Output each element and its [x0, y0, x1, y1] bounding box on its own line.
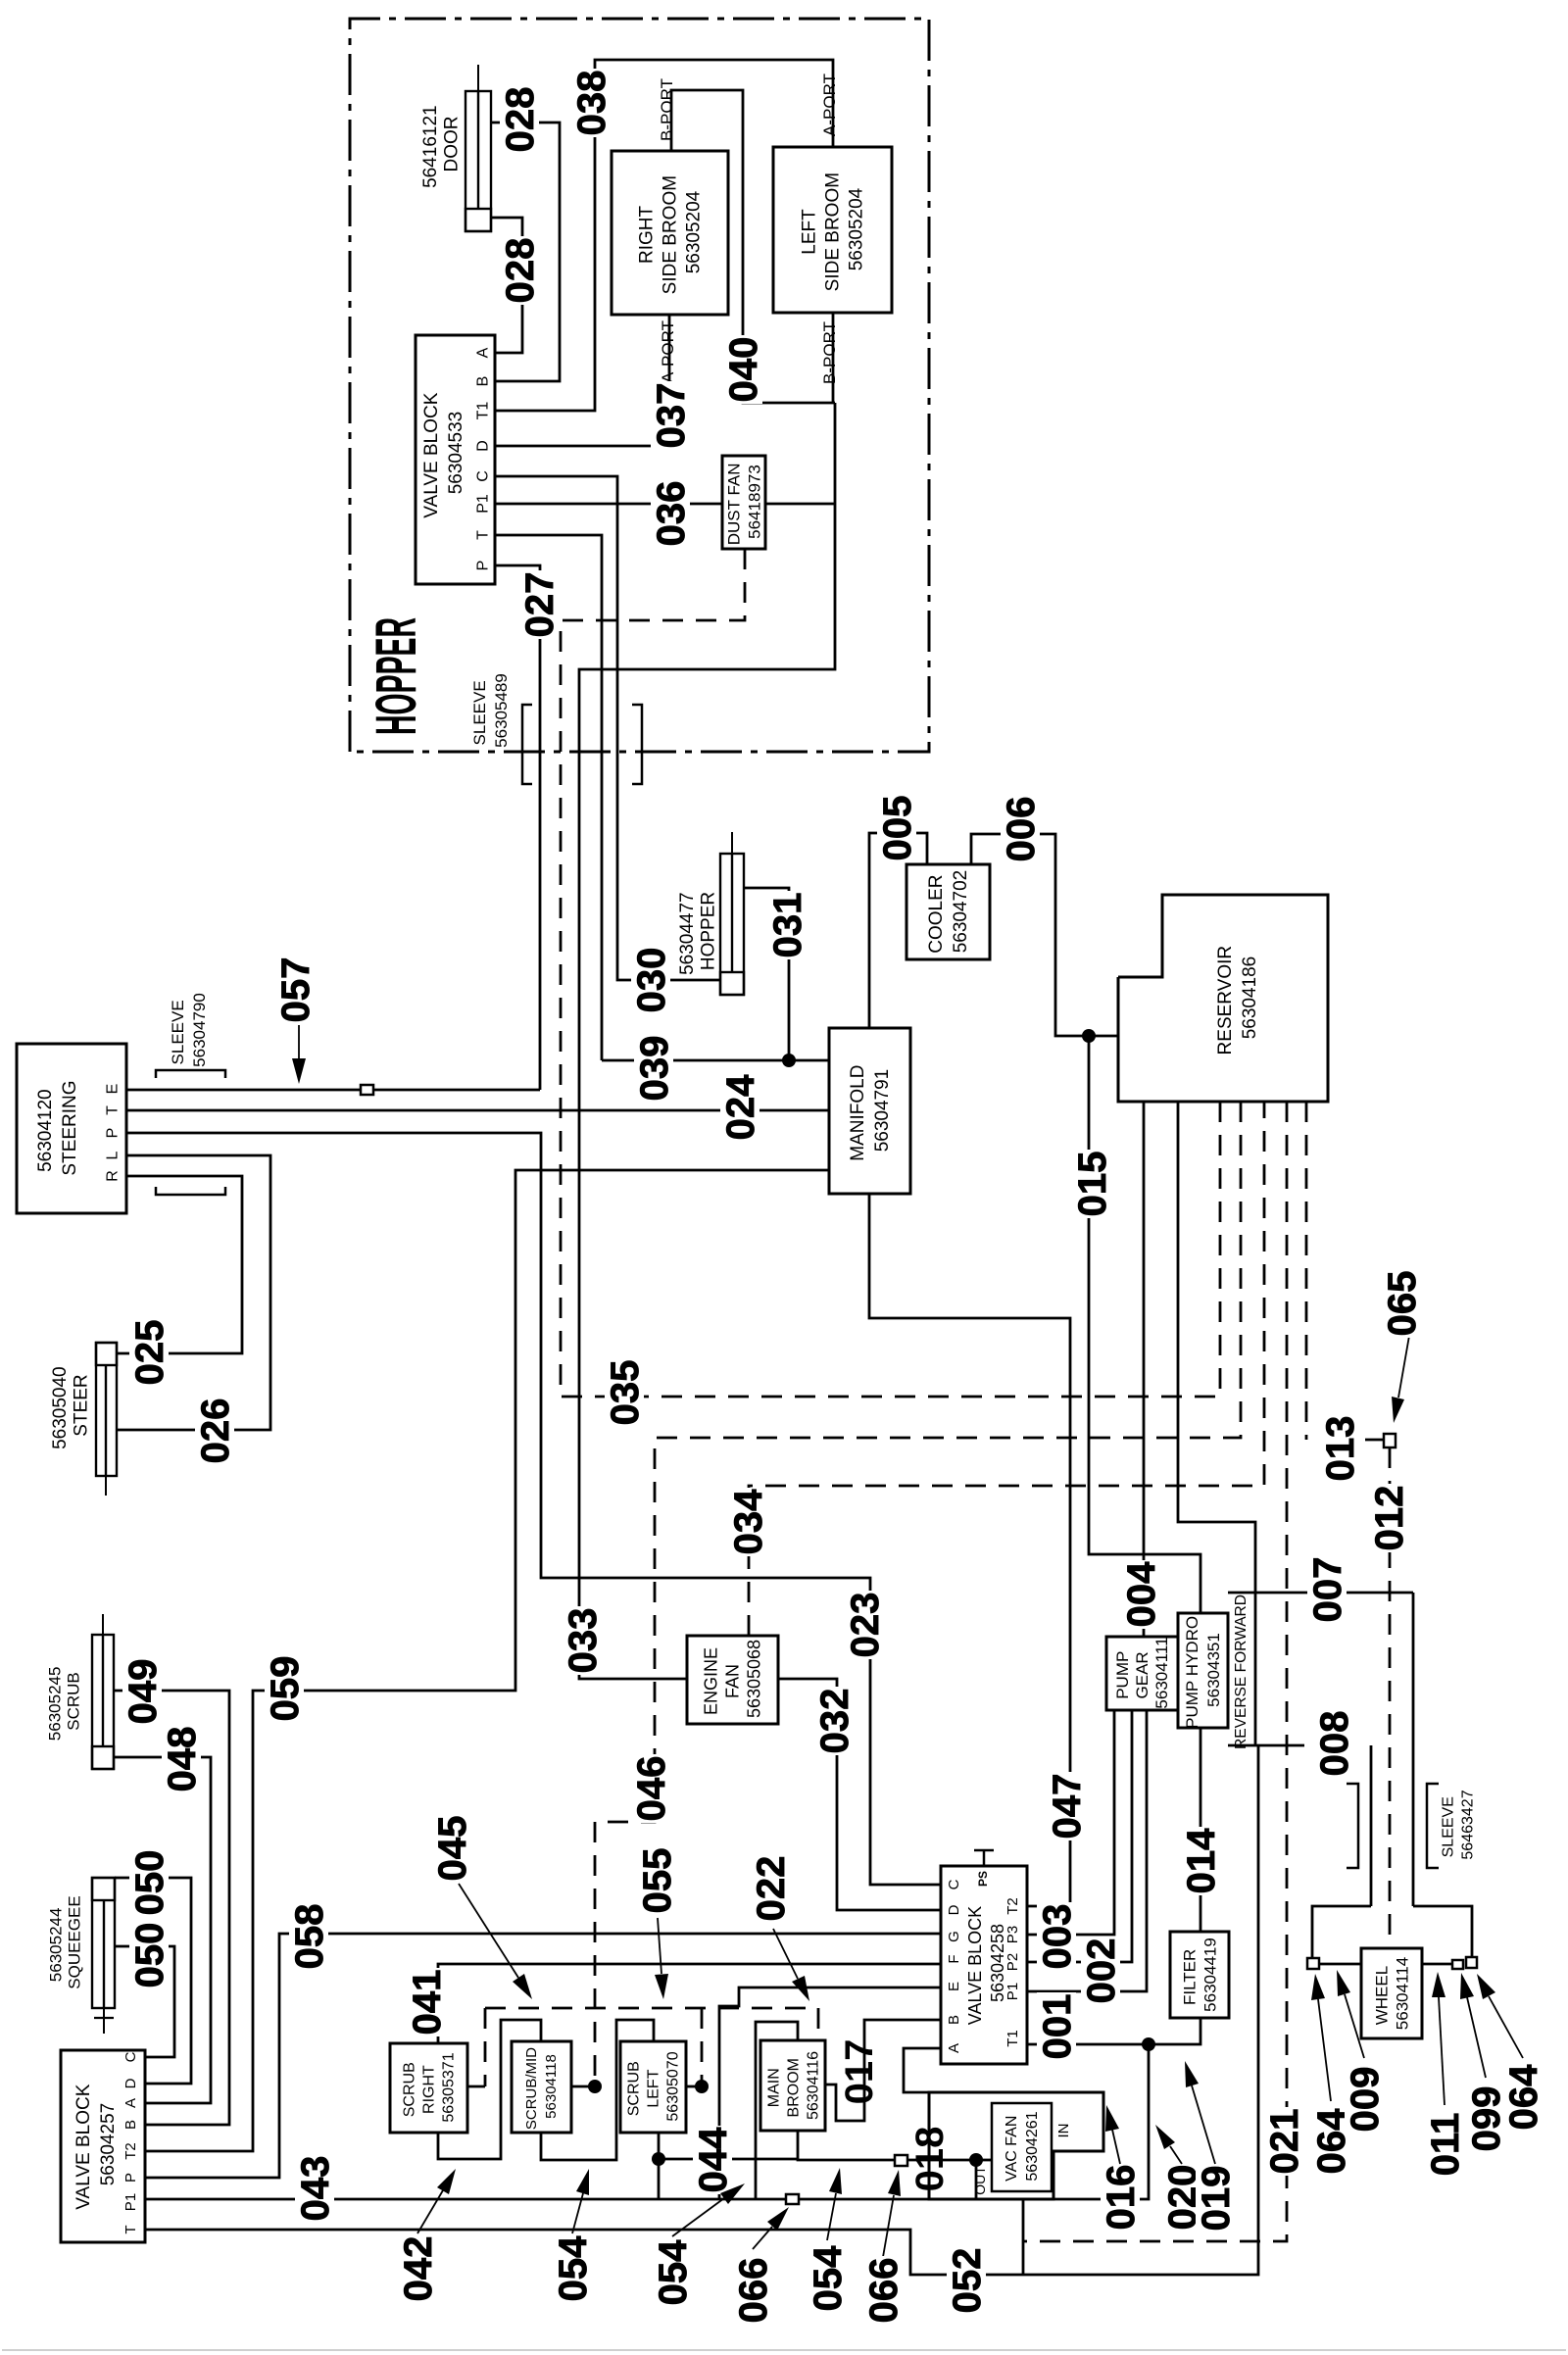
- label 047: [1047, 1772, 1086, 1840]
- wire C port down to hopper cylinder (hose 030): [495, 476, 720, 980]
- hydro pump reverse port line (hose 008 start): [1228, 1744, 1304, 1747]
- svg-text:C: C: [946, 1879, 962, 1889]
- connector 013: [1384, 1434, 1396, 1447]
- wire broom return down to engine fan (hose 033): [579, 403, 835, 1679]
- svg-text:B: B: [475, 376, 492, 387]
- junction main broom return: [969, 2153, 983, 2167]
- svg-text:56304477 HOPPER: 56304477 HOPPER: [677, 887, 718, 975]
- label 004: [1121, 1560, 1160, 1629]
- wire A port to door base end (hose 028): [491, 218, 522, 353]
- label 054: [653, 2238, 692, 2307]
- dashed drop to main broom: [817, 2008, 820, 2040]
- svg-text:025: 025: [128, 1320, 171, 1386]
- svg-text:D: D: [946, 1904, 962, 1915]
- svg-text:015: 015: [1071, 1152, 1114, 1217]
- label 024: [720, 1073, 759, 1142]
- filter bottom to valve block T1 (hose 019): [1027, 2018, 1200, 2044]
- label 009: [1345, 2065, 1384, 2134]
- svg-text:028: 028: [499, 238, 542, 304]
- wire T port down to manifold (hose 039): [495, 535, 602, 1060]
- right side broom motor 56305204: [612, 151, 728, 315]
- wire P1 port to dust fan (hose 036): [495, 503, 722, 506]
- label 064: [1311, 2107, 1350, 2176]
- hopper lift cylinder 56304477: [720, 832, 744, 995]
- svg-text:040: 040: [722, 337, 765, 403]
- wheel loop top right (hose 011): [1413, 1906, 1472, 1957]
- scrub right motor 56305371: [390, 2043, 467, 2133]
- gear pump line to P3 (hose 002): [1027, 1710, 1114, 1935]
- arrow for 045: [459, 1884, 518, 1978]
- svg-text:023: 023: [844, 1593, 887, 1658]
- svg-text:T: T: [475, 530, 492, 540]
- squeegee rod crossbar: [94, 2017, 114, 2019]
- wire P1 to scrub circuit (hose 043): [145, 2198, 929, 2201]
- junction scrub mid drain: [588, 2080, 602, 2093]
- svg-text:030: 030: [630, 948, 673, 1013]
- svg-text:A: A: [475, 347, 492, 358]
- svg-text:F: F: [946, 1954, 962, 1963]
- connector 066 on return bus: [786, 2194, 799, 2204]
- svg-text:D: D: [122, 2078, 139, 2088]
- svg-text:021: 021: [1263, 2109, 1306, 2175]
- label 015: [1072, 1150, 1111, 1218]
- dashed drop to scrub right: [484, 2008, 487, 2086]
- wire main broom bottom to vac fan (hose 018): [798, 2131, 976, 2160]
- wire P riser to valve block G (hose 058): [145, 1934, 941, 2178]
- arrow for 099: [1467, 1997, 1486, 2078]
- svg-text:C: C: [475, 470, 492, 482]
- door cylinder 56416121: [465, 65, 491, 231]
- junction filter return: [1142, 2037, 1155, 2051]
- label 021: [1264, 2107, 1303, 2176]
- label 001: [1037, 1992, 1076, 2061]
- junction scrub left return: [652, 2152, 665, 2166]
- manifold 56304791: [829, 1028, 910, 1194]
- svg-text:022: 022: [750, 1856, 793, 1922]
- arrow for 064 left: [1318, 1999, 1331, 2101]
- svg-text:064: 064: [1502, 2064, 1545, 2130]
- squeegee cylinder 56305244: [92, 1878, 115, 2034]
- label 064: [1503, 2063, 1543, 2132]
- wheel drive motor 56304114: [1361, 1948, 1422, 2038]
- arrow for 011: [1439, 1997, 1445, 2105]
- label 035: [605, 1358, 644, 1427]
- dashed wire dust fan drain to reservoir (hose 035): [561, 549, 1220, 1397]
- wire steering L to steer cylinder (hose 026): [117, 1155, 270, 1430]
- pressure switch port PS on valve block 56304258: [983, 1850, 986, 1866]
- label 030: [631, 946, 670, 1014]
- svg-text:042: 042: [397, 2236, 440, 2302]
- wire B port to door rod end (hose 028): [491, 123, 560, 381]
- label 002: [1081, 1937, 1120, 2005]
- svg-text:043: 043: [294, 2156, 337, 2222]
- scrub left port stub: [686, 2085, 702, 2088]
- wire valve block A to vac fan: [904, 2048, 941, 2092]
- svg-text:035: 035: [604, 1360, 647, 1426]
- dashed line to connector 013: [1305, 1102, 1308, 1440]
- hopper compartment dash-dot boundary: [350, 19, 929, 752]
- svg-text:054: 054: [807, 2245, 850, 2311]
- arrow for 016: [1112, 2130, 1120, 2164]
- svg-text:036: 036: [650, 481, 693, 547]
- svg-text:026: 026: [194, 1398, 237, 1464]
- svg-text:B-PORT: B-PORT: [820, 321, 839, 384]
- svg-text:037: 037: [650, 383, 693, 449]
- wire B to scrub barrel (hose 049): [114, 1691, 229, 2125]
- arrow for 065: [1398, 1291, 1417, 1398]
- wheel right stub: [1422, 1963, 1452, 1966]
- vac fan inner label box: [992, 2103, 1052, 2191]
- label 034: [728, 1488, 767, 1556]
- junction scrub left drain: [695, 2080, 709, 2093]
- svg-text:001: 001: [1036, 1994, 1079, 2060]
- faint scan artifact line at page bottom: [2, 2349, 1566, 2351]
- sleeve bracket near 008: [1347, 1784, 1358, 1868]
- label 013: [1320, 1414, 1359, 1483]
- svg-text:048: 048: [161, 1727, 204, 1792]
- svg-text:P: P: [122, 2173, 139, 2183]
- svg-text:044: 044: [692, 2127, 735, 2192]
- svg-text:059: 059: [264, 1656, 307, 1722]
- svg-text:T1: T1: [1004, 2030, 1021, 2047]
- svg-text:033: 033: [562, 1608, 605, 1674]
- svg-text:T1: T1: [475, 402, 492, 420]
- svg-text:T: T: [122, 2225, 139, 2233]
- gear pump 56304111: [1106, 1637, 1178, 1710]
- label 026: [195, 1397, 234, 1465]
- label 052: [947, 2246, 986, 2315]
- dashed bleed rail (hose 045): [485, 2007, 818, 2010]
- svg-text:028: 028: [499, 87, 542, 153]
- dashed wheel drive line (hose 012): [1389, 1447, 1392, 1948]
- wheel left stub: [1319, 1963, 1361, 1966]
- engine fan motor 56305068: [687, 1636, 778, 1724]
- wire 039 into manifold: [602, 1059, 829, 1062]
- wire D to squeegee base (hose 050): [115, 1878, 191, 2084]
- label 043: [295, 2154, 334, 2223]
- connector 099 right of wheel: [1452, 1960, 1463, 1969]
- wire valve block B to main broom (hose 017): [825, 2020, 941, 2121]
- label 055: [637, 1846, 676, 1915]
- svg-text:56305245 SCRUB: 56305245 SCRUB: [45, 1662, 82, 1741]
- arrow for 054 c: [827, 2193, 836, 2240]
- svg-text:066: 066: [732, 2258, 775, 2324]
- wire scrub right to scrub mid series: [438, 2020, 541, 2159]
- stub into vac fan: [976, 2159, 992, 2162]
- svg-text:B: B: [122, 2120, 139, 2130]
- main broom motor 56304116: [760, 2040, 825, 2131]
- wire scrub right top to valve block F (hose 041): [438, 1964, 941, 2043]
- junction cooler return at reservoir: [1082, 1029, 1096, 1043]
- svg-text:032: 032: [813, 1689, 857, 1754]
- label 042: [398, 2234, 437, 2303]
- hydro pump 56304351: [1178, 1613, 1228, 1728]
- sleeve 56305489 bracket right: [632, 705, 642, 784]
- label 099: [1466, 2085, 1505, 2153]
- label 008: [1314, 1709, 1353, 1778]
- wire hopper cylinder rod end to manifold (hose 031): [744, 888, 789, 1060]
- svg-text:56305040 STEER: 56305040 STEER: [50, 1361, 91, 1449]
- svg-text:038: 038: [570, 71, 613, 136]
- sleeve 56305489 bracket left: [522, 705, 532, 784]
- label 039: [634, 1034, 673, 1103]
- hydro pump to filter (hose 014): [1200, 1728, 1202, 1932]
- svg-text:017: 017: [838, 2039, 881, 2105]
- wire steering P to valve block C (hose 023): [126, 1133, 941, 1885]
- svg-text:G: G: [946, 1931, 962, 1942]
- sleeve 56463427 bracket: [1427, 1784, 1439, 1868]
- svg-text:052: 052: [946, 2248, 989, 2314]
- wire left broom B-PORT stub: [832, 313, 835, 403]
- svg-text:050: 050: [128, 1923, 171, 1988]
- dust fan motor 56418973: [722, 456, 765, 549]
- label 037: [651, 381, 690, 450]
- svg-text:C: C: [122, 2051, 139, 2062]
- svg-text:P3: P3: [1004, 1926, 1021, 1943]
- arrow for 020: [1170, 2146, 1182, 2164]
- wire cooler to reservoir (hose 006): [971, 834, 1118, 1036]
- label 027: [519, 570, 559, 639]
- svg-text:P: P: [475, 561, 492, 571]
- hose 007 down to wheel loop: [1412, 1593, 1415, 1906]
- label 059: [265, 1654, 304, 1723]
- svg-text:066: 066: [862, 2258, 906, 2324]
- svg-text:IN: IN: [1055, 2124, 1072, 2138]
- label 020: [1162, 2163, 1201, 2232]
- label 014: [1181, 1827, 1220, 1895]
- label 057: [275, 956, 315, 1024]
- connector 057 on steering E line: [361, 1085, 373, 1095]
- gear pump line to P1 (hose 001): [1027, 1710, 1147, 1991]
- wire manifold return (hose 059 upper): [145, 1170, 829, 2151]
- label 031: [767, 891, 807, 959]
- svg-text:P1: P1: [1004, 1983, 1021, 2000]
- svg-text:039: 039: [633, 1036, 676, 1102]
- wire dust fan right side to return: [765, 503, 835, 506]
- scrub right port stub: [467, 2085, 485, 2088]
- vac fan outer box 56304261: [929, 2092, 1103, 2199]
- svg-text:P1: P1: [475, 494, 492, 514]
- svg-text:006: 006: [1000, 797, 1043, 862]
- svg-text:009: 009: [1344, 2067, 1387, 2133]
- label 019: [1196, 2164, 1235, 2232]
- scrub mid port stub: [571, 2085, 595, 2088]
- svg-text:031: 031: [766, 893, 809, 958]
- steer cylinder 56305040: [96, 1343, 117, 1496]
- arrow for 057: [298, 1025, 300, 1058]
- svg-text:047: 047: [1046, 1774, 1089, 1840]
- left side broom motor 56305204: [773, 147, 892, 313]
- wire steering R to steer cylinder (hose 025): [117, 1176, 242, 1353]
- svg-text:P2: P2: [1004, 1953, 1021, 1971]
- vac fan out stub to return (hose 052 end): [1022, 2199, 1025, 2275]
- svg-text:T: T: [105, 1105, 122, 1115]
- wire junction down to bus: [975, 2160, 978, 2199]
- svg-text:003: 003: [1036, 1904, 1079, 1970]
- svg-text:050: 050: [128, 1850, 171, 1916]
- svg-text:B: B: [946, 2015, 962, 2025]
- label 032: [814, 1687, 854, 1755]
- svg-text:049: 049: [122, 1659, 165, 1725]
- valve block 56304258: [941, 1866, 1027, 2064]
- svg-text:057: 057: [274, 957, 318, 1023]
- wire main broom top loop: [756, 2022, 798, 2199]
- hydro pump forward port line (hose 007): [1228, 1592, 1413, 1595]
- arrow for 064 right: [1489, 1996, 1523, 2058]
- svg-text:041: 041: [406, 1970, 449, 2036]
- svg-text:PS: PS: [976, 1871, 990, 1887]
- svg-text:054: 054: [552, 2235, 595, 2301]
- dashed drain line scrub deck (hose 046): [595, 1102, 1241, 2086]
- scrub lift cylinder 56305245: [92, 1614, 114, 1769]
- svg-text:016: 016: [1100, 2165, 1143, 2231]
- wire steering T to manifold (hose 024): [126, 1109, 829, 1112]
- label 038: [571, 69, 611, 137]
- sleeve 56304790 bracket: [156, 1070, 225, 1078]
- arrow for 022: [773, 1929, 798, 1979]
- svg-text:002: 002: [1080, 1938, 1123, 2004]
- filter 56304419: [1170, 1932, 1229, 2018]
- wire reservoir to pump hydro suction (hose 015): [1089, 1036, 1200, 1613]
- wire T to vac fan return (hose 052): [145, 1745, 1258, 2275]
- wire right broom B-PORT loop (hose 040): [671, 90, 835, 403]
- svg-text:T2: T2: [122, 2142, 139, 2160]
- svg-text:005: 005: [876, 796, 919, 861]
- bracket below steering R line: [156, 1187, 225, 1195]
- valve block 56304257: [61, 2050, 145, 2242]
- label 048: [162, 1725, 201, 1793]
- wire manifold bottom to valve block T2 (hose 047): [869, 1194, 1070, 1906]
- svg-text:007: 007: [1306, 1557, 1349, 1623]
- label 044: [693, 2126, 732, 2194]
- svg-text:019: 019: [1195, 2166, 1238, 2232]
- dashed drain line engine fan (hose 034): [749, 1102, 1264, 1636]
- svg-text:P1: P1: [122, 2193, 139, 2211]
- steering control 56304120: [17, 1044, 126, 1213]
- svg-text:T2: T2: [1004, 1897, 1021, 1915]
- label 066: [733, 2256, 772, 2325]
- svg-text:014: 014: [1180, 1828, 1223, 1893]
- svg-text:034: 034: [727, 1489, 770, 1554]
- svg-text:HOPPER: HOPPER: [365, 617, 428, 735]
- arrow for 066 a: [753, 2227, 772, 2249]
- label 028: [500, 236, 539, 305]
- label 041: [407, 1968, 446, 2036]
- svg-text:011: 011: [1424, 2113, 1467, 2177]
- svg-text:SCRUB RIGHT 56305371: SCRUB RIGHT 56305371: [402, 2052, 458, 2122]
- wheel loop top left (hose 009): [1312, 1906, 1371, 1963]
- label 025: [129, 1318, 169, 1387]
- label 036: [651, 479, 690, 548]
- wire manifold to cooler (hose 005): [869, 833, 927, 1028]
- svg-text:E: E: [105, 1084, 122, 1095]
- connector 064 left of wheel: [1307, 1958, 1319, 1969]
- svg-text:027: 027: [518, 572, 562, 638]
- svg-text:A: A: [122, 2098, 139, 2108]
- wire valve block E to return bus: [719, 1987, 941, 2199]
- arrow for 019: [1192, 2085, 1215, 2164]
- svg-text:E: E: [946, 1982, 962, 1991]
- scrub mid motor 56304118: [512, 2041, 571, 2133]
- svg-text:D: D: [475, 440, 492, 452]
- wire scrub return to main broom line: [659, 2158, 798, 2161]
- svg-text:013: 013: [1319, 1416, 1362, 1482]
- svg-text:OUT: OUT: [972, 2166, 988, 2195]
- arrow for 054 b: [672, 2198, 724, 2236]
- wire reservoir to pump hydro case (hose 007 feed): [1178, 1102, 1255, 1745]
- valve block 56304533: [416, 335, 495, 584]
- svg-text:REVERSE FORWARD: REVERSE FORWARD: [1233, 1595, 1249, 1749]
- svg-text:008: 008: [1313, 1711, 1356, 1777]
- label 023: [845, 1591, 884, 1659]
- svg-text:004: 004: [1120, 1561, 1163, 1627]
- label 054: [553, 2234, 592, 2303]
- label 003: [1037, 1902, 1076, 1971]
- connector 066 on main broom line: [895, 2155, 907, 2166]
- label 006: [1001, 795, 1040, 863]
- label 012: [1369, 1484, 1408, 1552]
- junction hopper cylinder return: [782, 1054, 796, 1067]
- connector 064 right elbow: [1466, 1957, 1477, 1968]
- cooler 56304702: [906, 864, 990, 959]
- svg-text:R: R: [105, 1170, 122, 1182]
- arrow for 042: [417, 2190, 443, 2233]
- svg-text:058: 058: [288, 1904, 331, 1970]
- wire D port to right broom A-PORT (hose 037): [495, 315, 669, 446]
- label 045: [432, 1814, 471, 1883]
- svg-text:P: P: [105, 1128, 122, 1139]
- scrub left motor 56305070: [620, 2041, 686, 2133]
- label 050: [129, 1848, 169, 1917]
- arrow for 066 b: [883, 2195, 894, 2257]
- svg-text:PUMP GEAR 56304111: PUMP GEAR 56304111: [1113, 1637, 1171, 1708]
- wire reservoir to gear pump (hose 004): [1143, 1102, 1146, 1637]
- gear pump line to P2: [1027, 1710, 1132, 1962]
- svg-text:065: 065: [1381, 1271, 1424, 1337]
- label 022: [751, 1854, 790, 1923]
- label 028: [500, 85, 539, 154]
- svg-text:B-PORT: B-PORT: [658, 78, 676, 141]
- wire scrub left bottom to return bus (hose 044): [658, 2133, 661, 2199]
- label 011: [1425, 2110, 1464, 2179]
- label 066: [863, 2256, 903, 2325]
- label 054: [808, 2244, 847, 2313]
- reservoir 56304186 outline: [1118, 895, 1328, 1102]
- dashed drop to scrub left: [701, 2008, 704, 2086]
- label 049: [122, 1657, 162, 1726]
- wire P port down to steering E line (hose 027): [495, 565, 540, 1090]
- label 065: [1382, 1269, 1421, 1338]
- label 050: [129, 1921, 169, 1989]
- filter return down to vac fan (hose 020): [1053, 2044, 1149, 2199]
- svg-text:A: A: [946, 2043, 962, 2053]
- arrow for 054 a: [572, 2193, 583, 2233]
- dashed drain vac fan (hose 021): [1023, 1102, 1287, 2241]
- wire engine fan out to valve block D (hose 032): [778, 1679, 941, 1910]
- wire A to scrub base (hose 048): [114, 1757, 211, 2103]
- svg-text:045: 045: [431, 1816, 474, 1882]
- label 040: [723, 335, 762, 404]
- label 033: [563, 1606, 602, 1675]
- svg-text:046: 046: [630, 1756, 673, 1822]
- svg-text:A-PORT: A-PORT: [820, 74, 839, 136]
- label 046: [631, 1754, 670, 1823]
- svg-text:054: 054: [652, 2239, 695, 2305]
- svg-text:L: L: [105, 1151, 122, 1159]
- svg-text:56305244 SQUEEGEE: 56305244 SQUEEGEE: [46, 1895, 83, 1988]
- svg-text:055: 055: [636, 1848, 679, 1914]
- svg-text:012: 012: [1368, 1486, 1411, 1551]
